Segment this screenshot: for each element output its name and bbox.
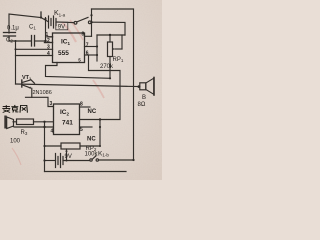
svg-text:B: B (142, 95, 146, 101)
svg-text:4: 4 (47, 51, 50, 57)
svg-text:C2: C2 (6, 38, 13, 44)
svg-text:4: 4 (51, 129, 54, 135)
svg-text:RP1: RP1 (113, 57, 124, 63)
svg-text:270k: 270k (100, 64, 114, 70)
svg-text:7: 7 (86, 42, 89, 48)
svg-text:3: 3 (47, 45, 50, 51)
svg-text:9V: 9V (65, 154, 72, 160)
svg-text:2: 2 (47, 38, 50, 44)
svg-text:C1: C1 (29, 25, 36, 31)
svg-text:K1-b: K1-b (98, 151, 109, 158)
svg-text:2N1086: 2N1086 (33, 90, 52, 96)
svg-text:5: 5 (80, 127, 83, 133)
svg-text:R3: R3 (21, 130, 28, 136)
svg-text:1: 1 (46, 32, 49, 38)
svg-text:555: 555 (58, 50, 69, 57)
svg-text:6: 6 (86, 51, 89, 57)
svg-text:8Ω: 8Ω (138, 102, 146, 108)
svg-text:3: 3 (50, 101, 53, 107)
svg-text:NC: NC (88, 109, 97, 115)
svg-text:741: 741 (62, 120, 73, 127)
svg-text:8: 8 (82, 31, 85, 37)
svg-text:100k: 100k (85, 152, 99, 158)
svg-text:0.1μ: 0.1μ (7, 26, 19, 32)
svg-text:NC: NC (87, 137, 96, 143)
svg-text:100: 100 (10, 139, 21, 145)
svg-text:8: 8 (80, 102, 83, 108)
svg-text:9V: 9V (58, 25, 65, 31)
svg-text:VT1: VT1 (22, 75, 32, 81)
